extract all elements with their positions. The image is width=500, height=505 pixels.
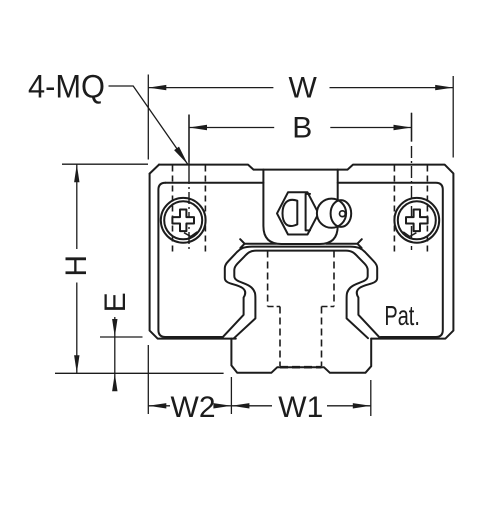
H arrows <box>74 164 79 182</box>
dimensions <box>55 75 453 417</box>
hidden dashed lines <box>173 166 428 368</box>
4-MQ leader <box>109 86 189 165</box>
svg-text:Pat.: Pat. <box>384 300 420 331</box>
hex barrel face <box>283 200 298 226</box>
W1 arrows <box>231 403 249 408</box>
carriage legs and bottom opening <box>231 339 371 373</box>
nipple dome tip <box>331 200 352 227</box>
nipple hex nut <box>277 192 319 234</box>
E arrows (outside) <box>112 319 117 337</box>
arrowheads <box>74 85 453 409</box>
carriage body outer outline <box>159 165 453 339</box>
B dim line <box>189 127 274 129</box>
rail bottom dark dashes <box>280 366 322 369</box>
svg-text:W1: W1 <box>278 391 323 424</box>
W2/W1 ticks <box>147 345 149 414</box>
H top extension <box>62 163 148 165</box>
right phillips cross <box>406 210 428 232</box>
W2 dim line <box>148 405 170 407</box>
body top-left chamfer <box>150 165 159 174</box>
nipple boss shelf right <box>326 239 362 248</box>
nipple boss shelf left <box>240 239 276 248</box>
W dim line <box>148 87 273 89</box>
baseline left <box>55 372 224 374</box>
B extension lines <box>188 115 190 163</box>
W arrows <box>148 85 166 90</box>
screw centerlines dash-dot <box>189 113 412 250</box>
hex right face edge <box>306 194 310 231</box>
body inner chamfer line (rounded rect) <box>165 182 263 184</box>
W extension lines <box>147 75 149 160</box>
svg-text:H: H <box>60 255 93 277</box>
screws <box>161 198 439 243</box>
grease nipple boot <box>263 170 337 244</box>
right hole dashed sides <box>393 166 395 253</box>
channel outer profile <box>222 247 381 339</box>
svg-text:4-MQ: 4-MQ <box>28 69 105 105</box>
left phillips cross <box>172 210 194 232</box>
E dim line <box>114 317 116 390</box>
W1 dim line <box>231 405 272 407</box>
svg-text:B: B <box>292 112 312 145</box>
rail body dashed <box>279 307 281 367</box>
H dim line <box>76 164 78 249</box>
svg-text:W2: W2 <box>171 391 216 424</box>
leader arrow <box>174 147 188 165</box>
left hole dashed sides <box>172 166 174 253</box>
svg-text:W: W <box>289 72 318 105</box>
E upper extension (body bottom) <box>100 336 143 338</box>
rail head dashed <box>267 251 269 307</box>
W2 arrows <box>148 403 166 408</box>
nipple flange cylinder <box>317 199 346 228</box>
B arrows <box>189 125 207 130</box>
channel inner profile <box>234 251 368 339</box>
nipple tip dot <box>340 211 346 217</box>
svg-text:E: E <box>99 292 132 312</box>
